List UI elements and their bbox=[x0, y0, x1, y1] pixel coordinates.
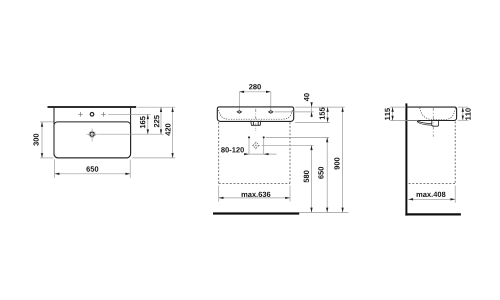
drain centerline bbox=[255, 109, 257, 131]
wall line (thick vertical) bbox=[405, 103, 407, 215]
extension line from basin bottom to right bbox=[132, 157, 175, 159]
tap hole right (diamond) bbox=[269, 111, 273, 114]
dimension 900 bbox=[334, 107, 343, 212]
dimension 420 bbox=[165, 107, 173, 158]
dimension 650 bbox=[55, 160, 131, 178]
extension basin top to right bbox=[295, 106, 344, 108]
mounting hole drop lines bbox=[249, 139, 264, 154]
hidden bowl line side (dashed) bbox=[420, 108, 456, 120]
label 80-120 bbox=[221, 147, 244, 152]
basin side outline bbox=[407, 107, 456, 120]
extension lines right (110) bbox=[458, 107, 468, 120]
dimension 155 bbox=[320, 107, 329, 122]
dimension 80-120 line bbox=[244, 153, 276, 155]
inner bowl outline bbox=[54, 122, 131, 158]
dimension 165 bbox=[140, 114, 149, 134]
cabinet clearance (dashed) bbox=[219, 122, 290, 183]
extension mounting dots to right bbox=[266, 136, 329, 138]
mounting hole dots bbox=[248, 136, 265, 138]
drain hole bbox=[87, 129, 98, 142]
dimension 225 bbox=[154, 107, 162, 134]
floor line (thick) bbox=[405, 213, 461, 215]
side tap hole mark left (+) bbox=[78, 112, 83, 117]
side tap hole mark right (+) bbox=[101, 112, 106, 117]
tap hole bbox=[90, 113, 94, 117]
wall line (top, thick) bbox=[48, 106, 137, 108]
clearance dashed lines (side) bbox=[409, 122, 456, 184]
floor line (thick) bbox=[213, 212, 299, 214]
extension line from drain to right bbox=[98, 133, 164, 135]
extension lines left (115) bbox=[390, 107, 419, 120]
dimension 650 (height) bbox=[318, 137, 328, 212]
dimension max.636 bbox=[219, 186, 290, 202]
dimension max.408 bbox=[408, 186, 455, 203]
extension basin bottom to right bbox=[295, 121, 329, 123]
overflow channel and trap bbox=[417, 121, 438, 127]
dimension 580 bbox=[304, 145, 313, 212]
floor extension line (thin) bbox=[299, 211, 348, 213]
dimension 280 (tap holes) bbox=[239, 84, 270, 110]
basin front outline bbox=[217, 107, 293, 122]
centerline through drain (side) bbox=[432, 107, 434, 137]
dimension 110 bbox=[462, 107, 471, 120]
extension line from tap hole to right bbox=[108, 113, 151, 115]
extension lines to left (bowl top / bottom) bbox=[40, 122, 53, 158]
dimension 300 bbox=[33, 122, 43, 158]
washbasin outer ceramic outline bbox=[54, 107, 131, 158]
drain flange under basin bbox=[251, 121, 261, 126]
extension siphon to right bbox=[262, 144, 314, 146]
tap hole left (diamond) bbox=[237, 111, 241, 114]
dimension 115 bbox=[385, 107, 394, 120]
hidden bowl line (dashed) bbox=[219, 110, 293, 119]
siphon symbol bbox=[252, 142, 259, 149]
extension tap hole to right bbox=[275, 111, 314, 113]
dimension 40 bbox=[304, 93, 313, 117]
extension line from wall line to right bbox=[138, 106, 175, 108]
